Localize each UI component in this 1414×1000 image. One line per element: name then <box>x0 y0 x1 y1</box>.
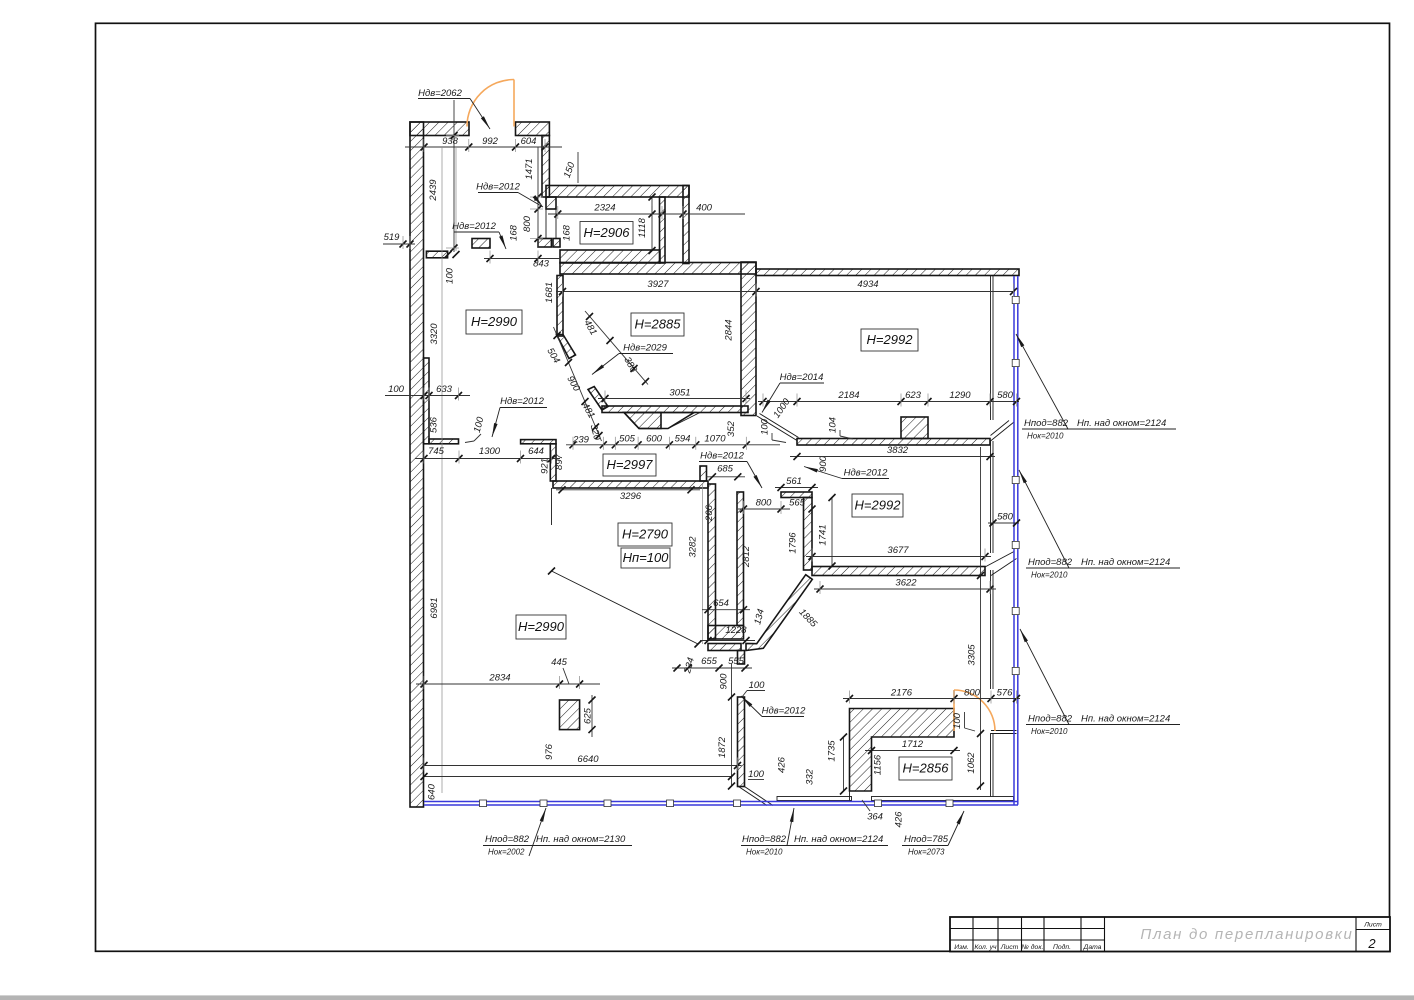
svg-text:2844: 2844 <box>724 319 735 341</box>
dim 561 <box>775 487 818 489</box>
svg-text:1885: 1885 <box>796 607 819 630</box>
svg-text:938: 938 <box>442 136 459 147</box>
door swing: entry door Hdv=2062 <box>513 80 515 127</box>
svg-text:565: 565 <box>789 498 806 509</box>
svg-text:604: 604 <box>521 136 537 147</box>
wall: corridor left jamb lines <box>545 209 547 239</box>
dim 2439 <box>453 100 455 252</box>
room label H=2856 <box>899 757 952 780</box>
svg-text:2834: 2834 <box>488 673 510 684</box>
svg-text:4934: 4934 <box>857 279 878 290</box>
dim ext vertical x=442 <box>441 147 443 793</box>
wall: H=2885 bottom wall <box>602 406 748 413</box>
svg-text:352: 352 <box>726 420 737 437</box>
svg-text:134: 134 <box>752 608 767 626</box>
svg-text:555: 555 <box>728 656 745 667</box>
svg-text:Нп. над окном=2124: Нп. над окном=2124 <box>794 834 883 845</box>
dim 1228 <box>700 640 755 642</box>
svg-text:Hдв=2012: Hдв=2012 <box>452 221 496 232</box>
svg-text:580: 580 <box>997 512 1014 523</box>
svg-text:H=2790: H=2790 <box>622 527 669 542</box>
door leaf Hdv=2014 (open) <box>757 416 797 441</box>
wall: kitchen niche outline <box>624 413 694 429</box>
dim 580 (mid) <box>988 522 1019 524</box>
svg-text:Hдв=2012: Hдв=2012 <box>762 706 806 717</box>
dim 1872 <box>731 664 733 786</box>
dim 1712 <box>865 750 960 752</box>
dim 3296 <box>556 489 700 491</box>
wall: inner face of right window wall <box>990 276 992 421</box>
svg-text:Нп. над окном=2124: Нп. над окном=2124 <box>1081 714 1170 725</box>
window sill diagonal (mid right) <box>985 552 1014 568</box>
svg-text:1741: 1741 <box>818 524 829 545</box>
svg-text:H=2990: H=2990 <box>518 619 565 634</box>
room label H=2990 (bottom) <box>516 615 566 639</box>
dim diagonal chamfer lines <box>554 327 602 441</box>
window sill lines (bath) <box>991 730 1017 732</box>
room label H=2992 (top) <box>861 329 918 351</box>
window: bottom facade glazing (blue) <box>424 801 1018 803</box>
svg-text:2324: 2324 <box>593 203 615 214</box>
svg-text:Нок=2010: Нок=2010 <box>1027 432 1064 441</box>
svg-text:426: 426 <box>777 756 788 773</box>
dim 100/633 <box>385 395 470 397</box>
svg-text:400: 400 <box>696 203 713 214</box>
room label H=2906 <box>580 222 633 245</box>
svg-text:1290: 1290 <box>949 390 971 401</box>
svg-text:2: 2 <box>1367 936 1376 951</box>
svg-text:900: 900 <box>818 455 829 472</box>
svg-text:3320: 3320 <box>429 323 440 345</box>
room label H=2790 <box>618 523 672 546</box>
svg-text:800: 800 <box>522 215 533 232</box>
wall: main horizontal wall thin (over H=2992) <box>756 269 1019 276</box>
dim 2184/623/1290/580 row <box>758 401 1019 403</box>
svg-text:504: 504 <box>544 346 561 365</box>
svg-text:3051: 3051 <box>669 388 690 399</box>
svg-text:386: 386 <box>621 355 639 375</box>
svg-text:1070: 1070 <box>704 434 726 445</box>
wall: H=2992mid bottom wall <box>812 567 985 576</box>
wall: bathroom L-wall <box>850 709 955 792</box>
svg-text:100: 100 <box>748 769 765 780</box>
wall: bathroom bottom left piece <box>849 791 851 801</box>
wall: column in H=2990 <box>560 700 580 730</box>
dim 1118 <box>651 197 653 251</box>
svg-text:100: 100 <box>388 384 405 395</box>
svg-text:№ док.: № док. <box>1022 943 1044 951</box>
wall: kitchen niche hatched part <box>624 413 661 429</box>
svg-text:800: 800 <box>756 498 773 509</box>
svg-text:Нок=2073: Нок=2073 <box>908 848 945 857</box>
window mullion marks right <box>1012 296 1019 303</box>
svg-text:Нок=2010: Нок=2010 <box>746 848 783 857</box>
svg-text:1712: 1712 <box>902 739 924 750</box>
svg-text:Hдв=2062: Hдв=2062 <box>418 88 462 99</box>
door swing: bathroom door <box>953 690 955 731</box>
svg-text:640: 640 <box>427 783 438 800</box>
svg-text:Нп. над окном=2130: Нп. над окном=2130 <box>536 834 626 845</box>
svg-text:Лист: Лист <box>1363 922 1382 929</box>
room label Hn=100 <box>621 548 670 568</box>
svg-text:Hдв=2014: Hдв=2014 <box>780 372 824 383</box>
wall: H=2885 chamfer stub lower <box>588 387 608 411</box>
wall: corner piece left of H=2790 wall <box>550 444 556 481</box>
svg-text:1156: 1156 <box>873 754 884 775</box>
svg-text:654: 654 <box>713 598 729 609</box>
svg-text:H=2856: H=2856 <box>903 761 950 776</box>
svg-text:519: 519 <box>384 232 401 243</box>
svg-text:206: 206 <box>704 504 715 522</box>
svg-text:1228: 1228 <box>725 625 747 636</box>
svg-text:644: 644 <box>528 446 544 457</box>
dim 654 <box>702 609 750 611</box>
svg-text:623: 623 <box>905 390 922 401</box>
svg-text:2439: 2439 <box>428 179 439 202</box>
title block <box>950 917 1390 952</box>
dim 2324/400 <box>548 213 745 215</box>
svg-text:Hдв=2012: Hдв=2012 <box>700 451 744 462</box>
svg-text:1300: 1300 <box>479 446 501 457</box>
svg-text:1872: 1872 <box>717 736 728 758</box>
dim 3305 <box>980 447 982 790</box>
wall: entry right wall <box>542 136 549 198</box>
svg-text:104: 104 <box>828 417 839 433</box>
svg-text:Hдв=2029: Hдв=2029 <box>623 343 667 354</box>
svg-text:1118: 1118 <box>637 217 648 237</box>
dim ext vertical x=456 <box>455 147 457 251</box>
svg-text:Дата: Дата <box>1083 944 1102 951</box>
svg-text:3282: 3282 <box>688 536 699 558</box>
wall: top entry wall right of door <box>516 122 550 136</box>
wall: diagonal wall 1885 <box>746 575 812 651</box>
wall: diagonal to window corner <box>739 787 768 806</box>
svg-text:445: 445 <box>551 657 568 668</box>
svg-text:745: 745 <box>428 446 445 457</box>
wall: left outer wall <box>410 122 424 807</box>
window sill diagonal (upper right) <box>991 422 1015 441</box>
wall: corridor top wall step <box>546 197 556 209</box>
svg-text:Изм.: Изм. <box>954 944 969 951</box>
wall: wall 3832 under H=2992top <box>797 439 990 446</box>
svg-text:976: 976 <box>544 743 555 760</box>
svg-text:800: 800 <box>964 688 981 699</box>
window: right facade glazing (blue) <box>1013 276 1015 805</box>
svg-text:320: 320 <box>588 423 603 442</box>
dim 800 (duct door) <box>738 508 790 510</box>
svg-text:332: 332 <box>805 768 816 785</box>
wall: corridor right wall B (400 slot) <box>683 186 689 264</box>
room label H=2990 (top left) <box>466 310 522 334</box>
wall: stub 561/565 <box>781 492 812 498</box>
wall: corridor top wall <box>546 186 689 198</box>
dim 1735 <box>843 737 845 791</box>
svg-text:576: 576 <box>997 688 1014 699</box>
wall: main horizontal wall thick (over H=2885) <box>560 263 756 275</box>
wall: corridor bottom wall <box>560 250 660 263</box>
wall: duct left wall <box>708 484 716 639</box>
svg-text:2812: 2812 <box>741 545 752 568</box>
svg-text:Лист: Лист <box>1000 944 1019 951</box>
wall: duct bottom block <box>708 626 744 640</box>
svg-text:655: 655 <box>701 656 718 667</box>
svg-text:Нок=2002: Нок=2002 <box>488 848 525 857</box>
dim 625 <box>591 695 593 737</box>
svg-text:1681: 1681 <box>544 282 555 303</box>
wall: vent box on 3832 wall <box>901 417 928 439</box>
dim 519 <box>383 243 415 245</box>
wall: wall under stub (x=808) <box>804 498 813 571</box>
svg-text:897: 897 <box>554 453 565 470</box>
wall: corridor-bath door stub <box>738 651 745 665</box>
dim 1741 <box>831 498 833 567</box>
svg-text:625: 625 <box>583 707 594 724</box>
svg-text:481: 481 <box>579 401 596 420</box>
room label H=2997 <box>603 454 656 476</box>
svg-text:843: 843 <box>533 259 550 270</box>
svg-text:900: 900 <box>719 673 730 690</box>
svg-text:100: 100 <box>952 712 963 729</box>
dim 745/1300/644 <box>415 458 560 460</box>
svg-text:992: 992 <box>482 136 499 147</box>
svg-text:685: 685 <box>717 464 734 475</box>
svg-text:Hп=100: Hп=100 <box>623 550 670 565</box>
svg-text:1000: 1000 <box>771 396 793 420</box>
svg-text:H=2997: H=2997 <box>607 457 654 472</box>
svg-text:1796: 1796 <box>788 532 799 554</box>
svg-text:3622: 3622 <box>895 578 917 589</box>
svg-text:3832: 3832 <box>887 445 909 456</box>
svg-text:Кол. уч: Кол. уч <box>974 944 997 951</box>
svg-text:536: 536 <box>429 416 440 433</box>
wall: top entry wall left of door <box>410 122 469 136</box>
svg-text:100: 100 <box>472 415 487 434</box>
svg-text:3305: 3305 <box>967 644 978 666</box>
svg-text:1062: 1062 <box>966 752 977 774</box>
dim 3927/4934 <box>556 291 1014 293</box>
room label H=2885 <box>631 313 684 336</box>
svg-text:168: 168 <box>509 224 520 241</box>
svg-text:Нп. над окном=2124: Нп. над окном=2124 <box>1081 557 1170 568</box>
room divider: H=2790 diagonal step <box>552 571 699 644</box>
svg-text:1471: 1471 <box>524 158 535 179</box>
svg-text:6640: 6640 <box>577 754 599 765</box>
dim 3051 <box>598 398 750 400</box>
svg-text:Hдв=2012: Hдв=2012 <box>476 182 520 193</box>
dim 3832 <box>790 456 995 458</box>
svg-text:H=2990: H=2990 <box>471 314 518 329</box>
bottom screen edge strip <box>0 995 1414 1000</box>
wall: stub 633 under Hdv=2012 door <box>429 439 459 444</box>
window mullion marks bottom <box>480 800 487 807</box>
room divider: H=2790 left line <box>551 488 553 525</box>
wall: upward stub at right end of 3296 wall <box>700 466 707 481</box>
svg-text:Нок=2010: Нок=2010 <box>1031 571 1068 580</box>
dim 2834/445 <box>416 683 600 685</box>
wall: H=2885 right wall <box>741 262 756 416</box>
svg-text:100: 100 <box>749 680 766 691</box>
wall: corridor right wall A <box>660 197 666 263</box>
svg-text:Hдв=2012: Hдв=2012 <box>500 396 544 407</box>
svg-text:H=2992: H=2992 <box>855 498 902 513</box>
dim 685 <box>706 476 745 478</box>
dim 1471/800/168 line <box>537 147 539 247</box>
svg-text:Hдв=2012: Hдв=2012 <box>844 468 888 479</box>
svg-text:3296: 3296 <box>620 491 642 502</box>
svg-text:Нп. над окном=2124: Нп. над окном=2124 <box>1077 418 1166 429</box>
wall: duct right wall <box>737 492 744 626</box>
svg-text:H=2885: H=2885 <box>635 317 682 332</box>
svg-text:6981: 6981 <box>429 597 440 618</box>
svg-text:Hпод=882: Hпод=882 <box>742 834 787 845</box>
wall: bathroom bottom thin wall <box>872 797 1014 801</box>
dim 843 <box>484 258 560 260</box>
wall: corridor left door stubs <box>538 239 551 248</box>
wall: corridor top bar below duct <box>708 644 741 651</box>
room label H=2992 (mid) <box>852 494 903 517</box>
svg-text:900: 900 <box>564 374 582 394</box>
wall: stub left of 843 door <box>472 239 490 249</box>
svg-text:3677: 3677 <box>887 545 909 556</box>
svg-text:426: 426 <box>894 811 905 828</box>
svg-text:2176: 2176 <box>890 688 913 699</box>
svg-text:100: 100 <box>760 418 771 435</box>
svg-text:505: 505 <box>619 434 636 445</box>
svg-text:H=2906: H=2906 <box>584 225 631 240</box>
svg-text:168: 168 <box>562 224 573 241</box>
dim 505/600/594/1070 row <box>566 444 780 446</box>
svg-text:Подп.: Подп. <box>1053 943 1071 951</box>
svg-text:481: 481 <box>581 318 598 337</box>
svg-text:Нок=2010: Нок=2010 <box>1031 727 1068 736</box>
wall: kitchen niche door line <box>668 413 700 429</box>
wall: top wall of H=2790 <box>553 481 708 488</box>
dim 6640 <box>424 765 742 767</box>
svg-text:100: 100 <box>445 267 456 284</box>
dim 2176/800/576 row <box>843 698 1020 700</box>
wall: H=2885 chamfer stub upper <box>557 335 576 359</box>
wall: H=2885 left wall <box>557 276 563 337</box>
svg-text:Hпод=882: Hпод=882 <box>485 834 530 845</box>
svg-text:Hпод=785: Hпод=785 <box>904 834 949 845</box>
svg-text:921: 921 <box>540 458 551 474</box>
svg-text:594: 594 <box>675 434 691 445</box>
svg-text:1735: 1735 <box>827 740 838 762</box>
svg-text:580: 580 <box>997 390 1014 401</box>
svg-text:План до перепланировки: План до перепланировки <box>1140 926 1353 943</box>
wall: corridor-bath left wall <box>738 697 745 787</box>
dim 3677 <box>806 556 991 558</box>
wall: left wall stub (519 area) <box>426 251 447 258</box>
svg-text:600: 600 <box>646 434 663 445</box>
svg-text:150: 150 <box>562 160 578 179</box>
svg-text:561: 561 <box>786 476 802 487</box>
svg-text:364: 364 <box>867 812 883 823</box>
svg-text:633: 633 <box>436 384 453 395</box>
svg-text:Hпод=882: Hпод=882 <box>1024 418 1069 429</box>
svg-text:3927: 3927 <box>647 279 669 290</box>
dim 3622 <box>814 588 996 590</box>
wall: left wall inner thickening <box>424 358 430 444</box>
dim 938/992/604 <box>405 146 562 148</box>
dim 655/555 <box>672 667 752 669</box>
svg-text:2184: 2184 <box>837 390 859 401</box>
svg-text:H=2992: H=2992 <box>867 332 914 347</box>
